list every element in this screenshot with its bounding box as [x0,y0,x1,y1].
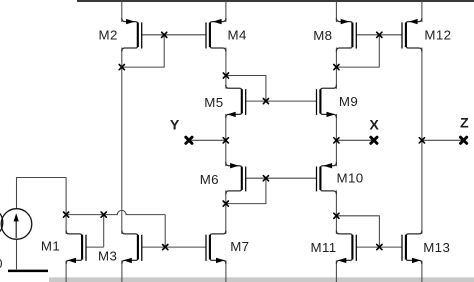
svg-text:X: X [369,118,379,134]
wire [335,114,337,166]
svg-text:Z: Z [460,116,469,132]
junction [419,138,424,143]
wire [225,114,227,166]
wire [103,215,105,248]
wire [421,1,423,22]
transistor M6 [226,162,246,194]
wire [17,178,67,234]
svg-text:M7: M7 [230,239,249,254]
bottom crop band [49,277,474,282]
junction [101,212,106,217]
transistor M9 [317,85,337,118]
wire [335,48,337,89]
svg-text:M10: M10 [337,171,364,186]
wire [122,35,164,67]
svg-text:M6: M6 [200,172,219,187]
transistor M2 [122,18,142,51]
wire [357,34,403,36]
wire [16,239,18,269]
junction [163,245,168,250]
transistor M8 [336,18,356,51]
svg-text:M2: M2 [99,28,118,43]
wire [335,260,337,282]
wire [225,190,227,234]
svg-text:M3: M3 [98,248,117,263]
junction [334,213,339,218]
junction [223,201,228,206]
transistor M5 [226,85,246,118]
wire [164,215,166,248]
junction [334,65,339,70]
wire [246,177,317,179]
svg-text:M5: M5 [204,95,223,110]
junction [377,245,382,250]
wire [335,190,337,234]
junction [263,99,268,104]
wire [422,139,464,141]
wire [121,1,123,22]
partial current source at crop edge [0,207,3,238]
junction [119,65,124,70]
wire [225,1,227,22]
wire [336,35,379,67]
wire [225,260,227,282]
svg-text:Y: Y [170,117,180,133]
transistor M7 [206,230,226,264]
wire [246,100,317,102]
transistor M11 [336,230,356,264]
junction [223,138,228,143]
junction [334,138,339,143]
transistor M1 [66,230,86,264]
svg-text:0: 0 [0,257,3,271]
junction [64,212,69,217]
svg-text:M9: M9 [339,94,358,109]
svg-text:M4: M4 [228,28,247,43]
wire [336,216,379,247]
wire [65,260,67,282]
transistor M3 [122,230,142,264]
svg-text:M13: M13 [423,240,450,255]
junction [263,176,268,181]
wire [142,246,206,248]
junction [223,73,228,78]
svg-text:M11: M11 [311,240,337,255]
svg-text:M8: M8 [313,28,332,43]
wire [421,260,423,282]
wire [66,210,165,214]
wire [335,1,337,22]
node Z terminal [461,137,467,143]
svg-text:M12: M12 [424,28,451,43]
wire [86,246,104,248]
node Y terminal [186,137,192,143]
transistor M13 [402,230,422,264]
wire [225,48,227,89]
wire [421,48,423,234]
svg-text:M1: M1 [41,239,60,254]
wire [226,178,266,203]
wire [336,139,374,141]
transistor M4 [206,18,226,51]
VDD rail [77,0,474,2]
wire [357,246,403,248]
wire [121,260,123,282]
current source Ib [1,209,32,240]
wire [121,48,123,234]
transistor M10 [317,162,337,194]
node X terminal [371,137,377,143]
wire [189,139,226,141]
transistor M12 [402,18,422,51]
junction [162,32,167,37]
wire [226,76,266,102]
wire [142,34,206,36]
junction [377,32,382,37]
ground [8,270,48,273]
